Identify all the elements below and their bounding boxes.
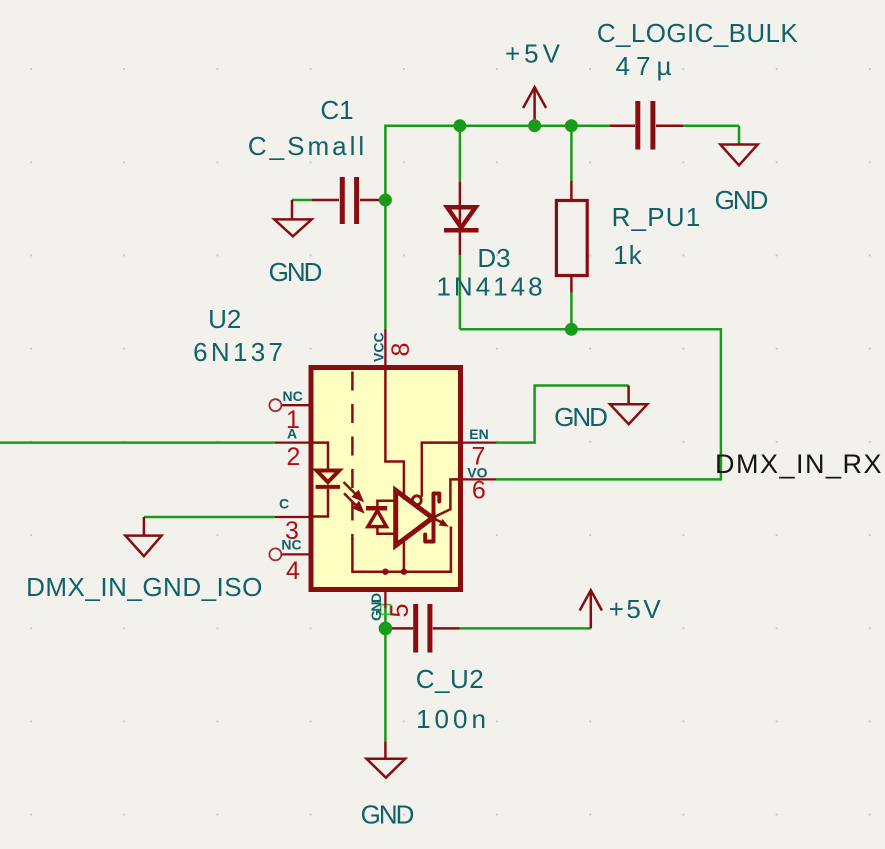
svg-text:6: 6 (472, 477, 486, 505)
svg-text:R_PU1: R_PU1 (612, 202, 702, 232)
svg-text:GND: GND (368, 593, 384, 621)
svg-text:C_U2: C_U2 (416, 664, 484, 694)
svg-text:4: 4 (286, 557, 300, 585)
svg-text:GND: GND (554, 402, 607, 432)
svg-text:DMX_IN_RX: DMX_IN_RX (715, 449, 883, 479)
svg-text:GND: GND (269, 257, 322, 287)
svg-text:8: 8 (387, 343, 415, 357)
svg-text:+5V: +5V (505, 39, 564, 69)
svg-text:C1: C1 (320, 95, 353, 125)
svg-text:47µ: 47µ (616, 51, 678, 81)
svg-text:GND: GND (715, 185, 768, 215)
svg-text:DMX_IN_GND_ISO: DMX_IN_GND_ISO (26, 572, 263, 602)
svg-text:NC: NC (281, 537, 301, 553)
svg-text:+5V: +5V (609, 594, 664, 624)
svg-text:VCC: VCC (371, 332, 387, 362)
svg-text:C: C (279, 496, 289, 512)
svg-text:GND: GND (361, 800, 414, 830)
svg-text:C_Small: C_Small (248, 131, 367, 161)
svg-text:D3: D3 (477, 243, 510, 273)
svg-text:5: 5 (386, 604, 414, 618)
svg-text:A: A (287, 426, 297, 442)
svg-text:U2: U2 (208, 304, 241, 334)
svg-text:1k: 1k (613, 240, 642, 270)
svg-text:EN: EN (469, 426, 488, 442)
svg-text:C_LOGIC_BULK: C_LOGIC_BULK (597, 18, 799, 48)
svg-text:2: 2 (287, 443, 301, 471)
svg-text:NC: NC (282, 388, 302, 404)
svg-text:1N4148: 1N4148 (436, 272, 545, 302)
svg-text:6N137: 6N137 (193, 337, 286, 367)
svg-text:100n: 100n (416, 704, 490, 734)
